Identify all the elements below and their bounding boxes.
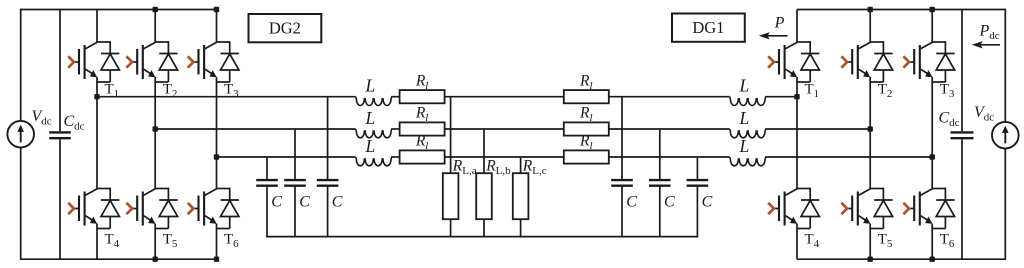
svg-text:C: C [271, 194, 282, 211]
svg-text:L: L [739, 108, 750, 128]
svg-text:P: P [774, 15, 785, 32]
svg-text:L: L [365, 136, 376, 156]
svg-text:C: C [299, 194, 310, 211]
svg-text:DG2: DG2 [269, 19, 301, 38]
svg-text:C: C [702, 194, 713, 211]
svg-text:L: L [739, 136, 750, 156]
svg-text:C: C [664, 194, 675, 211]
svg-text:C: C [626, 194, 637, 211]
svg-text:L: L [739, 76, 750, 96]
svg-text:C: C [332, 194, 343, 211]
svg-text:DG1: DG1 [692, 18, 724, 37]
svg-text:L: L [365, 76, 376, 96]
svg-text:L: L [365, 108, 376, 128]
